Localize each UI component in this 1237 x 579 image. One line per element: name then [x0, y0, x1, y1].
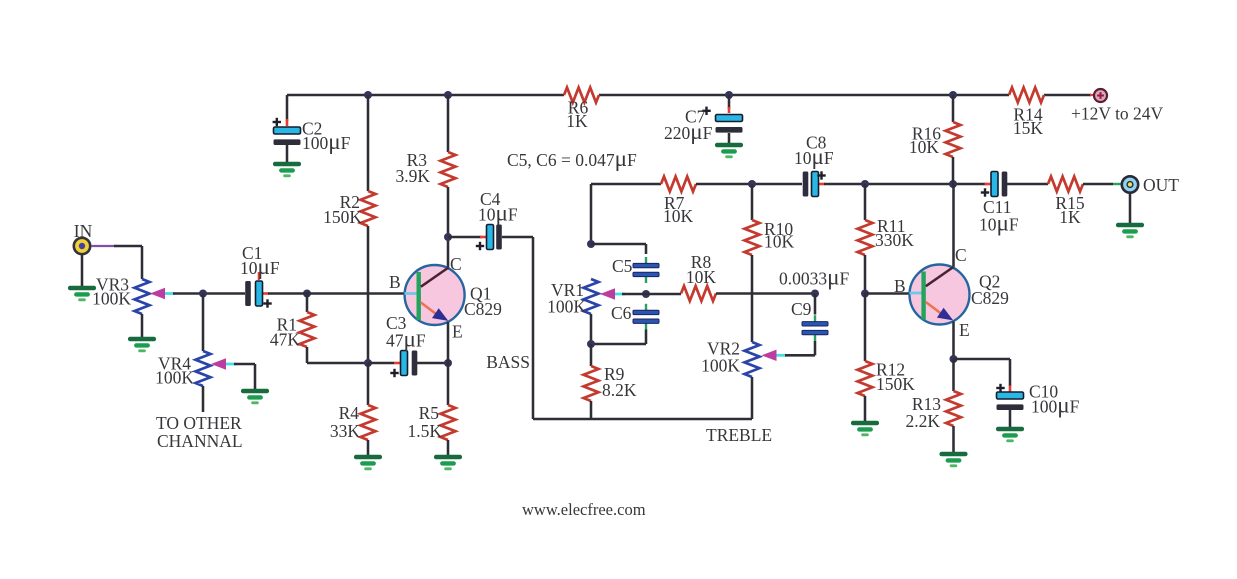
svg-text:1K: 1K [566, 111, 588, 131]
wire C7 red polarity lead [728, 107, 731, 113]
svg-text:100K: 100K [547, 297, 586, 317]
svg-text:E: E [452, 322, 463, 342]
wire R9 bottom lead [590, 401, 593, 419]
capacitor C5 0.047uF [645, 257, 647, 266]
svg-text:1.5K: 1.5K [407, 421, 442, 441]
wire C4 down to bass rail [532, 237, 535, 419]
junction top rail / C7 [725, 91, 733, 99]
svg-text:TREBLE: TREBLE [706, 425, 772, 445]
wire C3 right lead [417, 362, 448, 365]
svg-text:10K: 10K [686, 267, 717, 287]
svg-text:B: B [389, 272, 401, 292]
wire VR1 wiper to node [622, 293, 646, 296]
potentiometer VR1 [584, 279, 599, 314]
svg-text:100K: 100K [155, 368, 194, 388]
wire C10 to ground [1009, 410, 1012, 427]
wire R3 top lead [447, 95, 450, 152]
resistor R13 [946, 391, 961, 426]
svg-text:C: C [450, 254, 462, 274]
transistor Q2 C829 [910, 265, 970, 325]
wire VR3 wiper to C1 [173, 292, 245, 295]
wire top rail right segment [1044, 94, 1091, 97]
capacitor C8 10uF [818, 183, 825, 186]
ground below C2 [275, 162, 299, 167]
resistor R14 [1009, 88, 1044, 103]
wire R8 to C9 node [716, 292, 815, 295]
wire bass bottom rail [533, 418, 752, 421]
wire VR1 bottom lead [590, 314, 593, 344]
svg-text:C: C [955, 245, 967, 265]
wire VR4 wiper lead [234, 363, 255, 366]
capacitor C11 10uF [985, 183, 992, 186]
svg-text:100K: 100K [701, 356, 740, 376]
wire R3 to Q1 collector [447, 187, 450, 268]
wire VR1 top to C5 [591, 243, 646, 246]
svg-text:OUT: OUT [1143, 175, 1179, 195]
wire C5 top lead [645, 244, 648, 254]
wire R1 bottom lead [306, 347, 309, 363]
wire Q1 emitter lead [447, 322, 450, 363]
wire C8 to R16 node [824, 183, 986, 186]
ground below VR4 wiper [243, 389, 267, 394]
junction R1 top [303, 290, 311, 298]
ground below R4 [356, 455, 380, 460]
wire C9 top lead [814, 294, 817, 315]
resistor R2 [361, 191, 376, 226]
wire C11 to R15 [1007, 183, 1048, 186]
ground below C7 [717, 143, 741, 148]
wire top rail left segment [287, 94, 564, 97]
wire R11 top lead [864, 184, 867, 220]
junction top rail / R16 [949, 91, 957, 99]
wire C3 left lead [368, 362, 394, 365]
wire C2 to ground [286, 145, 289, 162]
svg-text:33K: 33K [330, 421, 361, 441]
capacitor C6 0.047uF [645, 304, 647, 313]
potentiometer VR3 [135, 279, 150, 314]
wire +12V terminal red lead [1090, 94, 1094, 96]
wire C7 to ground [728, 133, 731, 143]
resistor R4 [361, 405, 376, 440]
junction Q1 emitter / R5 [444, 359, 452, 367]
resistor R6 [564, 88, 599, 103]
svg-text:47K: 47K [270, 330, 301, 350]
svg-text:+12V to 24V: +12V to 24V [1071, 104, 1164, 124]
wire R5 bottom lead [447, 440, 450, 455]
resistor R11 [858, 220, 873, 255]
wiper arrow VR2 [762, 350, 777, 361]
output jack OUT [1122, 176, 1138, 192]
wire C9 bottom lead [814, 341, 817, 355]
svg-text:C6: C6 [611, 303, 632, 323]
wiper arrow VR4 [211, 358, 226, 369]
junction R2 / R4 / C3 [364, 359, 372, 367]
capacitor C2 100uF [274, 127, 301, 134]
wire C2 red polarity lead [286, 119, 289, 126]
wire R10 top lead [751, 184, 754, 220]
svg-text:IN: IN [74, 221, 93, 241]
wire R1 to C3 node [307, 362, 368, 365]
wire C2 positive lead [286, 95, 289, 121]
wire C6 to VR1 bottom [591, 343, 646, 346]
capacitor C10 100uF [1009, 386, 1012, 393]
svg-text:150K: 150K [876, 374, 915, 394]
wire top rail middle segment [599, 94, 1009, 97]
svg-text:C5: C5 [612, 256, 633, 276]
resistor R10 [745, 220, 760, 255]
wire R10 to VR2 [751, 255, 754, 342]
ground below R13 [942, 452, 966, 457]
resistor R8 [681, 286, 716, 301]
resistor R15 [1048, 177, 1083, 192]
junction VR1 top [587, 240, 595, 248]
resistor R3 [441, 152, 456, 187]
wire R12 bottom lead [864, 396, 867, 421]
wire node to R8 [646, 293, 681, 296]
wiper arrow VR1 [600, 288, 615, 299]
transistor Q1 C829 [405, 265, 465, 325]
svg-text:C829: C829 [464, 299, 502, 319]
junction R10 top [748, 180, 756, 188]
junction R11 / R12 / Q2 base [861, 290, 869, 298]
wire OUT jack green lead [1113, 183, 1126, 185]
wire R4 top lead [367, 363, 370, 405]
wire IN jack to ground [81, 254, 84, 286]
wire Q2 emitter lead [952, 322, 955, 360]
wire IN jack purple lead [91, 245, 116, 247]
wire IN jack to VR3 top [114, 245, 142, 248]
junction Q2 emitter / R13 / C10 [950, 355, 958, 363]
wire R13 bottom lead [952, 426, 955, 452]
ground below IN jack [70, 286, 94, 291]
junction R16 / C11 [949, 180, 957, 188]
ground below R12 [853, 421, 877, 426]
svg-text:1K: 1K [1059, 207, 1081, 227]
wire R4 bottom lead [367, 440, 370, 455]
wire C4 right lead [502, 236, 533, 239]
wire Q2 emitter to C10 [954, 358, 1011, 361]
junction R11 top [861, 180, 869, 188]
junction C5 / C6 / wiper [642, 290, 650, 298]
wire R15 to OUT jack [1083, 183, 1113, 186]
wire VR3 top lead [141, 246, 144, 279]
potentiometer VR2 [745, 342, 760, 377]
wire C9 to VR2 wiper [785, 354, 815, 357]
wire R16 bottom lead [952, 157, 955, 184]
capacitor C1 10uF [262, 292, 269, 295]
wire R1 top lead [306, 294, 309, 313]
svg-text:TO OTHER: TO OTHER [156, 413, 242, 433]
wire R7 to C8 [696, 183, 802, 186]
svg-text:CHANNAL: CHANNAL [157, 431, 243, 451]
wire R16 top lead [952, 95, 955, 122]
svg-text:3.9K: 3.9K [395, 166, 430, 186]
capacitor C4 10uF [480, 236, 487, 239]
wire VR4 top lead [202, 294, 205, 352]
junction top rail / R2 [364, 91, 372, 99]
capacitor C7 220uF [716, 115, 743, 122]
ground below C10 [998, 427, 1022, 432]
junction C9 top [811, 290, 819, 298]
svg-text:www.elecfree.com: www.elecfree.com [522, 500, 646, 519]
wire VR3 bottom lead [141, 314, 144, 337]
wire Q2 collector lead [952, 184, 955, 268]
ground below VR3 [130, 337, 154, 342]
wire to Q2 base [865, 292, 910, 295]
capacitor C3 47uF [394, 362, 401, 365]
wire C7 top lead [728, 95, 731, 109]
svg-text:15K: 15K [1013, 118, 1044, 138]
svg-text:C9: C9 [791, 299, 812, 319]
resistor R16 [946, 122, 961, 157]
input jack IN [74, 238, 90, 254]
wire C6 bottom lead [645, 330, 648, 345]
resistor R12 [858, 361, 873, 396]
wire C1 to Q1 base [268, 292, 405, 295]
ground below OUT jack [1118, 223, 1142, 228]
svg-text:E: E [959, 320, 970, 340]
capacitor C9 0.0033uF [814, 315, 816, 324]
wire C4 left lead [448, 236, 482, 239]
wire VR4 to other channel [202, 386, 205, 412]
wire R2 bottom lead [367, 226, 370, 363]
svg-text:10K: 10K [909, 137, 940, 157]
svg-text:R5: R5 [419, 403, 440, 423]
svg-text:100K: 100K [92, 289, 131, 309]
svg-text:10K: 10K [663, 206, 694, 226]
junction R3 / C4 node [444, 233, 452, 241]
wire R7 left lead [591, 183, 661, 186]
ground below R5 [436, 455, 460, 460]
svg-text:R4: R4 [339, 403, 360, 423]
wire R11 bottom lead [864, 255, 867, 294]
resistor R9 [584, 366, 599, 401]
svg-text:10K: 10K [764, 232, 795, 252]
wire VR1 branch top [590, 184, 593, 244]
svg-text:2.2K: 2.2K [905, 411, 940, 431]
wire OUT jack to ground [1129, 193, 1132, 223]
potentiometer VR4 [196, 351, 211, 386]
wire C10 top lead [1009, 359, 1012, 386]
wire VR4 wiper to ground [254, 364, 257, 389]
svg-text:330K: 330K [875, 230, 914, 250]
wiper arrow VR3 [150, 288, 165, 299]
resistor R5 [441, 405, 456, 440]
junction VR1 bottom / R9 [587, 340, 595, 348]
svg-text:150K: 150K [323, 207, 362, 227]
C1 red polarity tick [258, 272, 260, 280]
wire R13 top lead [952, 359, 955, 391]
wire R9 top lead [590, 344, 593, 366]
svg-text:B: B [894, 276, 906, 296]
junction VR4 tap [199, 290, 207, 298]
wire R2 top lead [367, 95, 370, 191]
wire R12 top lead [864, 294, 867, 362]
resistor R1 [300, 312, 315, 347]
wire VR2 bottom lead [751, 377, 754, 419]
svg-text:8.2K: 8.2K [602, 380, 637, 400]
+12V supply terminal [1094, 89, 1107, 102]
svg-text:BASS: BASS [486, 352, 530, 372]
resistor R7 [661, 177, 696, 192]
svg-text:C829: C829 [971, 288, 1009, 308]
wire R5 top lead [447, 363, 450, 405]
junction top rail / R3 [444, 91, 452, 99]
